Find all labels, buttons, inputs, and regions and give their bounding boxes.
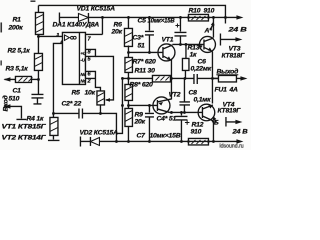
svg-text:КТ818Г: КТ818Г [221, 52, 245, 59]
svg-text:20к: 20к [133, 118, 145, 125]
svg-text:Выход: Выход [216, 67, 238, 75]
svg-text:С4* 51: С4* 51 [156, 115, 176, 122]
svg-text:+U: +U [80, 51, 87, 56]
svg-text:910: 910 [203, 7, 214, 14]
svg-text:200к: 200к [7, 24, 23, 31]
svg-text:20к: 20к [110, 28, 122, 35]
svg-text:4: 4 [59, 39, 63, 44]
svg-text:VT3: VT3 [228, 45, 240, 52]
svg-text:R11 30: R11 30 [134, 67, 155, 74]
svg-text:Вход: Вход [1, 95, 9, 111]
svg-text:КТ819Г: КТ819Г [217, 107, 241, 114]
svg-text:VT1 КТ815Г: VT1 КТ815Г [1, 123, 46, 130]
svg-text:R6: R6 [113, 21, 122, 28]
svg-text:C3*: C3* [132, 34, 143, 41]
svg-text:С7: С7 [136, 132, 146, 139]
svg-text:51: 51 [137, 42, 145, 49]
svg-text:R1: R1 [12, 16, 21, 23]
svg-text:R13*: R13* [187, 44, 202, 51]
svg-text:R8* 620: R8* 620 [129, 81, 153, 88]
svg-text:R9: R9 [134, 111, 143, 118]
svg-text:ldsound.ru: ldsound.ru [219, 143, 243, 149]
svg-text:510: 510 [8, 95, 19, 102]
svg-text:VT2 КТ814Г: VT2 КТ814Г [1, 134, 46, 141]
svg-text:0,1мк: 0,1мк [193, 96, 211, 103]
svg-text:24 В: 24 В [231, 128, 247, 135]
svg-text:R2 5,1к: R2 5,1к [7, 47, 30, 54]
svg-text:1к: 1к [189, 51, 197, 58]
svg-text:10к: 10к [84, 89, 95, 96]
svg-text:R7* 620: R7* 620 [132, 58, 156, 65]
svg-text:R5: R5 [71, 89, 80, 96]
svg-text:2: 2 [86, 78, 91, 84]
svg-text:Nс: Nс [80, 78, 86, 83]
svg-text:6: 6 [87, 71, 91, 77]
svg-text:5: 5 [87, 56, 91, 62]
svg-text:*Б: *Б [211, 119, 218, 126]
svg-text:R3 5,1к: R3 5,1к [5, 65, 28, 72]
svg-text:910: 910 [190, 128, 201, 135]
svg-text:R4 1к: R4 1к [26, 115, 44, 122]
svg-text:VD2 КС515А: VD2 КС515А [79, 129, 118, 136]
svg-text:Nс: Nс [80, 72, 86, 77]
svg-text:C5: C5 [137, 17, 146, 24]
svg-text:7: 7 [87, 36, 91, 42]
svg-text:4А: 4А [228, 86, 238, 93]
svg-text:VT1: VT1 [161, 36, 173, 43]
svg-text:0,22мк: 0,22мк [190, 65, 211, 72]
svg-text:FU1: FU1 [214, 86, 227, 93]
svg-text:10мк×15В: 10мк×15В [149, 132, 180, 139]
svg-text:VD1 КС515А: VD1 КС515А [76, 5, 115, 12]
svg-text:С2* 22: С2* 22 [61, 100, 81, 107]
svg-text:С1: С1 [12, 87, 21, 94]
svg-text:С8: С8 [188, 89, 197, 96]
svg-text:DA1 К140УД8А: DA1 К140УД8А [52, 21, 99, 28]
svg-text:24 В: 24 В [227, 26, 247, 33]
svg-text:R12: R12 [191, 121, 203, 128]
svg-text:10мк×15В: 10мк×15В [147, 17, 174, 24]
svg-text:8: 8 [87, 49, 91, 55]
svg-text:С6: С6 [197, 58, 206, 65]
svg-text:А*: А* [203, 27, 212, 34]
svg-text:VT2: VT2 [168, 91, 180, 98]
svg-text:R10: R10 [188, 7, 200, 14]
